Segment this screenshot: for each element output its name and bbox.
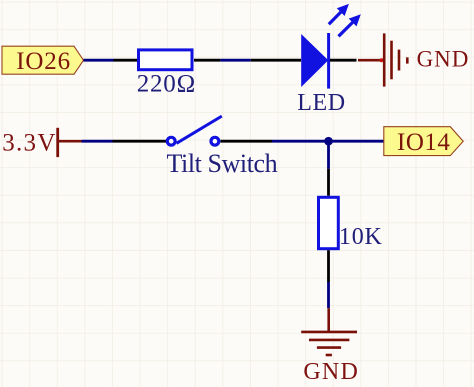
- svg-text:GND: GND: [417, 46, 470, 71]
- svg-text:LED: LED: [297, 90, 346, 116]
- svg-text:GND: GND: [303, 359, 359, 385]
- svg-text:220Ω: 220Ω: [137, 71, 196, 98]
- svg-text:IO26: IO26: [16, 48, 71, 75]
- svg-text:3.3V: 3.3V: [2, 129, 57, 156]
- svg-text:10K: 10K: [339, 224, 383, 250]
- svg-text:Tilt Switch: Tilt Switch: [167, 149, 278, 178]
- svg-text:IO14: IO14: [397, 129, 450, 156]
